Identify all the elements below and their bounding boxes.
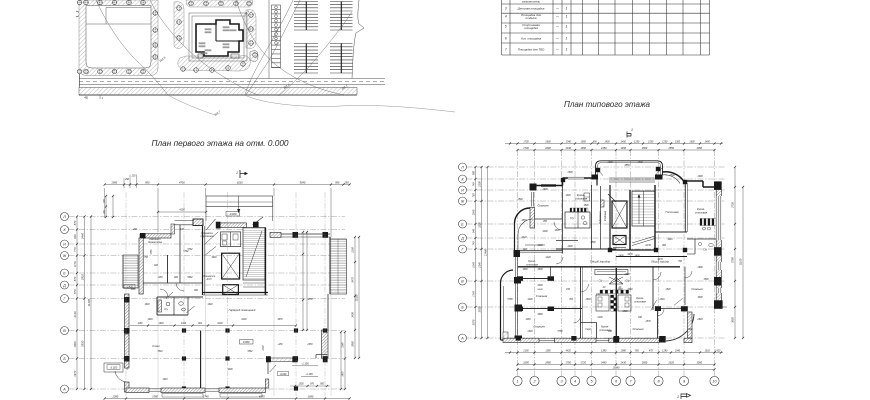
- svg-text:1610: 1610: [705, 350, 711, 352]
- left window 2: [515, 284, 517, 305]
- hall right wall: [329, 237, 331, 294]
- svg-text:1340: 1340: [566, 147, 572, 150]
- canopy side verticals: [205, 207, 207, 222]
- right plan grid bubbles numbers: [513, 376, 522, 385]
- left plan left dimension chains: [76, 217, 78, 390]
- parking comb upper-right: [330, 1, 353, 3]
- partition x657 lower: [657, 311, 659, 339]
- svg-text:4150: 4150: [179, 209, 185, 212]
- parking comb lower-left: [294, 43, 318, 45]
- left plan bottom dimension row: [105, 398, 350, 400]
- step wall to top bay: [596, 178, 598, 186]
- svg-text:1500: 1500: [637, 162, 643, 164]
- extension lines to plan: [157, 188, 159, 232]
- core top-left column: [216, 222, 221, 229]
- svg-text:2620: 2620: [668, 361, 675, 364]
- office top wall hatched: [140, 234, 171, 238]
- svg-text:АХЛ: АХЛ: [206, 278, 212, 281]
- tree bottom-left corner: [77, 69, 82, 74]
- left wall segment 2: [125, 334, 130, 368]
- svg-text:3290: 3290: [542, 231, 548, 233]
- section mark 1 top: [240, 170, 245, 178]
- boundary break mark: [76, 11, 83, 17]
- building entrance steps: [198, 54, 203, 58]
- left balcony hatch piece: [503, 332, 508, 341]
- svg-text:1600: 1600: [689, 141, 695, 143]
- porch step wall right: [316, 354, 327, 356]
- left bump-out wall: [500, 283, 502, 340]
- left plan extension verticals: [157, 188, 159, 396]
- parking west boundary line: [268, 0, 270, 79]
- svg-text:4Б: 4Б: [84, 96, 88, 100]
- playground inner area: [86, 6, 151, 69]
- svg-text:1380: 1380: [545, 350, 551, 352]
- partition y306 right: [661, 308, 681, 310]
- left plan grid bubbles: [61, 213, 69, 221]
- svg-text:1500: 1500: [607, 162, 613, 164]
- core bottom wall: [203, 292, 269, 294]
- stair landing below: [243, 282, 265, 284]
- top-right wall y181: [684, 180, 703, 182]
- trees on playground right band: [153, 11, 158, 16]
- contour line 1: [96, 0, 168, 95]
- core door swings: [205, 232, 219, 244]
- tree cluster below building: [178, 56, 251, 72]
- bottom wall column blocks: [516, 336, 521, 341]
- bottom wall window 2: [596, 338, 609, 340]
- wc fixtures upper: [581, 216, 584, 219]
- outdoor stair east hatched: [330, 239, 347, 294]
- site plan: [76, 0, 455, 117]
- kitchen counter upper right checker: [700, 219, 716, 226]
- level box -0.020: [226, 212, 240, 217]
- office step wall block: [193, 219, 203, 226]
- apartment entry doors mirrored: [609, 277, 623, 284]
- tree cluster strip right of building: [246, 10, 256, 49]
- road tick marks: [99, 95, 101, 100]
- svg-text:2190: 2190: [522, 350, 529, 352]
- top-right arc corner wall: [663, 172, 685, 182]
- parking stalls ladder column: [272, 5, 281, 68]
- svg-text:1800: 1800: [604, 141, 610, 143]
- svg-text:290: 290: [132, 229, 138, 231]
- building sidewalk outline: [189, 13, 247, 61]
- svg-text:1890: 1890: [590, 242, 596, 244]
- svg-text:1430: 1430: [621, 361, 627, 364]
- svg-text:1220: 1220: [545, 257, 551, 259]
- stair up arrow: [638, 196, 640, 224]
- hall columns: [124, 328, 128, 332]
- wc door swing 2: [187, 306, 195, 313]
- step wall x562-597: [562, 178, 564, 186]
- core stairs right plan: [632, 191, 655, 226]
- hall top boundary wall right of core: [270, 233, 281, 238]
- svg-text:Гард: Гард: [585, 328, 591, 331]
- svg-text:1: 1: [566, 48, 568, 52]
- svg-text:1250: 1250: [662, 141, 668, 143]
- svg-text:1: 1: [516, 380, 518, 384]
- trees on playground top band: [84, 0, 89, 5]
- svg-text:2450: 2450: [600, 147, 607, 150]
- wash fixtures: [222, 234, 227, 240]
- svg-text:3470: 3470: [352, 277, 355, 283]
- svg-text:заполнитель: заполнитель: [521, 0, 541, 4]
- right plan top dimension rows: [505, 143, 723, 145]
- corridor top wall right part: [616, 256, 687, 258]
- svg-text:Гостиная: Гостиная: [665, 210, 678, 214]
- svg-text:1970: 1970: [343, 371, 345, 377]
- corridor top wall left part: [556, 248, 616, 250]
- svg-text:1450: 1450: [621, 147, 627, 150]
- svg-text:1650: 1650: [581, 141, 587, 143]
- parking east torn edge: [352, 0, 364, 78]
- left small vertical dims top: [105, 196, 107, 217]
- svg-text:3480: 3480: [601, 361, 607, 364]
- top bay wall block left: [592, 175, 599, 180]
- core top wall hatched band: [219, 223, 246, 228]
- svg-text:6: 6: [505, 37, 507, 41]
- door arcs below wc: [160, 289, 168, 297]
- left wall upper segment: [514, 223, 516, 250]
- svg-text:5780: 5780: [557, 331, 563, 333]
- svg-text:7: 7: [505, 48, 507, 52]
- bottom exterior wall hatched segment 1: [503, 338, 539, 342]
- svg-text:1: 1: [566, 15, 568, 19]
- contour through parking 1: [246, 0, 300, 95]
- svg-text:2190: 2190: [352, 247, 355, 254]
- top bay wall block right: [655, 175, 663, 180]
- table vertical grid lines: [501, 0, 503, 55]
- right wall pilasters: [714, 181, 722, 190]
- right lower corner bottom hatch: [684, 338, 692, 342]
- svg-text:12120: 12120: [356, 294, 359, 301]
- balcony corner chamfer left: [596, 168, 603, 176]
- office left wall hatched: [139, 238, 143, 294]
- svg-text:1850: 1850: [307, 299, 313, 301]
- svg-text:1150: 1150: [138, 323, 144, 325]
- wash rooms in core: [221, 232, 241, 247]
- partition y240.5: [556, 240, 578, 242]
- far right dimension chain left plan: [354, 237, 356, 358]
- road edge line lower: [79, 84, 385, 86]
- left pilaster 1: [514, 250, 521, 257]
- parking comb upper-left: [294, 1, 318, 3]
- left wall bottom stub: [125, 382, 130, 392]
- partition y278.5 left: [517, 278, 554, 280]
- hall partition vertical center: [200, 331, 202, 393]
- top balcony outline: [596, 161, 663, 175]
- road hatched strip: [79, 88, 357, 95]
- svg-text:3030: 3030: [554, 230, 560, 232]
- balcony corner chamfer right: [655, 168, 662, 176]
- svg-text:5562: 5562: [247, 351, 253, 353]
- hall right wall lower: [327, 294, 329, 330]
- top-right step down: [702, 181, 704, 187]
- upper-left room top wall: [535, 185, 563, 187]
- office vertical stub wall x171: [171, 224, 175, 234]
- partition x685 upper: [684, 183, 686, 232]
- porch steps below bottom wall 1: [162, 394, 203, 398]
- kladovaya pier hatched: [601, 200, 605, 207]
- svg-text:800: 800: [473, 170, 476, 175]
- right lower corner wall hatched: [688, 312, 693, 338]
- site amenities table: [502, 0, 710, 55]
- contour line 4: [245, 0, 293, 95]
- left plan top dimension row: [105, 184, 350, 186]
- wc right fixtures: [709, 243, 713, 246]
- right plan left dimension chains: [475, 167, 477, 338]
- wc door swing 1: [166, 292, 173, 299]
- upper-left bay arc wall: [515, 208, 531, 223]
- svg-text:1780: 1780: [566, 361, 572, 364]
- bottom wall segment 3: [219, 388, 265, 393]
- left bump-out bay arc top: [500, 270, 513, 283]
- kitchen checker band: [600, 290, 629, 294]
- tree east of building: [250, 51, 258, 62]
- svg-text:740: 740: [473, 182, 476, 187]
- canopy center arrow: [238, 196, 240, 213]
- svg-text:2290: 2290: [596, 317, 603, 319]
- stair center rail: [643, 191, 645, 226]
- upper-left corner column: [530, 184, 537, 191]
- stair break diagonal: [632, 236, 655, 243]
- svg-text:1960: 1960: [687, 329, 693, 331]
- svg-text:4: 4: [574, 380, 576, 384]
- svg-text:1540: 1540: [473, 209, 476, 215]
- left wall column B: [124, 297, 130, 303]
- svg-text:3050: 3050: [697, 147, 703, 150]
- left wall column at B row: [124, 328, 130, 334]
- office partition x180: [179, 225, 181, 283]
- svg-text:2130: 2130: [263, 345, 265, 352]
- svg-text:1570: 1570: [645, 321, 651, 323]
- office room partition x167: [167, 255, 169, 283]
- svg-text:И: И: [461, 188, 464, 192]
- left plan horizontal grid dash-dot lines: [69, 216, 346, 218]
- wc hatched pier: [158, 300, 162, 312]
- partition x562 vertical: [562, 185, 564, 254]
- bottom right small dim row: [290, 385, 330, 387]
- core left wall: [609, 185, 611, 250]
- parking comb lower-right: [330, 43, 353, 45]
- building interior partition horizontal: [216, 40, 239, 42]
- porch door swing: [270, 365, 276, 372]
- svg-text:2690: 2690: [544, 141, 551, 143]
- entrance canopy slab above core: [206, 196, 273, 207]
- svg-text:1: 1: [236, 171, 238, 175]
- outdoor platform bottom-left: [104, 363, 123, 372]
- svg-text:1890: 1890: [583, 205, 589, 207]
- table horizontal grid lines: [502, 3, 710, 5]
- svg-text:6230: 6230: [217, 323, 223, 325]
- svg-text:Спальня: Спальня: [533, 325, 545, 329]
- svg-text:2020: 2020: [520, 237, 527, 239]
- svg-text:1: 1: [566, 7, 568, 11]
- gard closet walls: [581, 322, 597, 324]
- outdoor stair left: [123, 255, 138, 288]
- section mark bottom of right plan: [681, 394, 691, 400]
- svg-text:1750: 1750: [151, 249, 153, 255]
- core left wall: [202, 226, 204, 295]
- svg-text:-0.030: -0.030: [280, 374, 287, 376]
- outdoor stair label: [124, 285, 135, 289]
- svg-text:230: 230: [131, 176, 137, 178]
- svg-text:2730: 2730: [732, 202, 735, 209]
- left pilaster 4: [515, 336, 523, 343]
- road center dashed line: [79, 81, 385, 83]
- svg-text:отдыха: отдыха: [526, 16, 537, 20]
- right wall lower hatched piece: [322, 330, 329, 358]
- parking area: [246, 0, 364, 96]
- svg-text:3650: 3650: [732, 317, 735, 323]
- hall top column mid: [293, 232, 299, 238]
- left plan vertical column grid lines: [125, 192, 127, 396]
- parking ladder symbols: [275, 6, 278, 9]
- right plan horizontal grid lines: [467, 166, 727, 168]
- svg-text:План первого этажа на отм. 0.0: План первого этажа на отм. 0.000: [152, 139, 290, 148]
- office top-left column: [140, 233, 146, 239]
- svg-text:2500: 2500: [668, 175, 675, 177]
- svg-text:1150: 1150: [131, 289, 137, 291]
- bottom wall segment 2: [161, 388, 205, 393]
- svg-text:1740: 1740: [473, 291, 476, 297]
- svg-text:столовая: столовая: [634, 301, 646, 304]
- svg-text:1900: 1900: [697, 267, 703, 269]
- upper-left wall piece hatched: [530, 208, 535, 229]
- svg-text:1500: 1500: [703, 279, 709, 281]
- gostinaya bottom wall: [655, 231, 687, 233]
- core stair walls: [629, 190, 631, 250]
- svg-text:1980: 1980: [621, 350, 627, 352]
- left pilaster 3: [515, 305, 523, 312]
- top bay window band: [609, 177, 655, 179]
- svg-text:1: 1: [566, 25, 568, 29]
- svg-text:2070: 2070: [473, 319, 476, 326]
- svg-text:2550: 2550: [668, 147, 675, 150]
- stairs diagonal arrow: [246, 231, 262, 277]
- level box -0.030 bottom: [278, 372, 289, 376]
- platform level label: [107, 365, 120, 370]
- typical floor plan: [459, 128, 745, 399]
- bottom-right door arc: [666, 314, 694, 341]
- elevator shaft 2: [223, 285, 239, 295]
- svg-text:1700: 1700: [523, 141, 529, 143]
- svg-text:5762: 5762: [183, 251, 189, 253]
- building footprint walls: [196, 20, 243, 56]
- bottom wall window 1: [539, 338, 555, 340]
- columns right plan: [561, 178, 565, 182]
- wc block walls: [157, 296, 203, 298]
- svg-text:6230: 6230: [241, 319, 247, 321]
- svg-text:+150: +150: [277, 344, 283, 346]
- section mark top of right plan: [627, 132, 631, 138]
- bottom window 1: [149, 388, 161, 390]
- svg-text:И: И: [63, 242, 66, 246]
- elevator shaft A: [612, 201, 627, 228]
- svg-text:площадка: площадка: [524, 26, 538, 30]
- svg-text:940: 940: [473, 228, 476, 233]
- partition y250-305 right rooms: [684, 267, 686, 305]
- contour line 2: [150, 0, 258, 95]
- hall interior dimension line: [130, 325, 296, 327]
- svg-text:1230: 1230: [537, 245, 543, 247]
- shaft top chamfer: [608, 194, 616, 202]
- playground inner divider line: [86, 23, 151, 25]
- right wall lower end ledge: [714, 306, 723, 308]
- level label -1.100 a: [292, 365, 318, 367]
- building apartment number labels: [205, 28, 212, 30]
- porch columns: [266, 356, 271, 362]
- bottom wall end block: [659, 336, 666, 343]
- svg-text:1150: 1150: [157, 277, 163, 279]
- contour line 3: [236, 0, 344, 95]
- shaft B lower compartment: [613, 247, 626, 249]
- level label 0.000 box: [240, 340, 254, 345]
- svg-text:2350: 2350: [306, 344, 313, 346]
- svg-text:740: 740: [473, 241, 476, 246]
- stairs block left plan: [243, 228, 265, 281]
- partition y308.5 left: [517, 308, 582, 310]
- column at wall 6 bottom: [613, 337, 619, 343]
- bottom-left corner: [501, 339, 517, 341]
- porch wall hatched band: [271, 358, 293, 362]
- core top-right column: [253, 222, 259, 229]
- svg-text:1900: 1900: [542, 189, 548, 191]
- corridor niche shelf: [595, 270, 628, 275]
- right lower dim chain: [344, 332, 346, 389]
- porch left corner wall: [267, 362, 269, 374]
- window in office top y220-225: [175, 220, 194, 222]
- window in step wall y178: [568, 177, 584, 180]
- contour tail 2: [168, 95, 215, 115]
- svg-text:1000: 1000: [522, 269, 528, 271]
- contour through parking 2: [278, 12, 352, 96]
- kitchen fixture stack upper: [584, 193, 590, 201]
- wc cluster upper: [565, 212, 590, 228]
- svg-text:Абонентск.: Абонентск.: [201, 275, 216, 278]
- svg-text:Ж: Ж: [460, 199, 465, 203]
- road strip bottom line: [79, 95, 357, 97]
- svg-text:5: 5: [505, 25, 507, 29]
- svg-text:Площадка для ТБО: Площадка для ТБО: [518, 48, 545, 52]
- kitchen fixtures circles: [703, 227, 706, 230]
- svg-text:1720: 1720: [581, 361, 587, 364]
- bottom window 2: [205, 388, 219, 390]
- right side dimension chains of left plan: [302, 232, 304, 330]
- svg-text:3050: 3050: [697, 361, 703, 364]
- right exterior wall hatched: [716, 183, 721, 307]
- first floor plan: [61, 170, 361, 400]
- playground inner tick: [105, 8, 107, 25]
- svg-text:5780: 5780: [732, 257, 735, 263]
- svg-text:3400: 3400: [352, 312, 355, 318]
- svg-text:Спальня: Спальня: [536, 294, 548, 298]
- right plan right dimension chains: [734, 167, 736, 338]
- svg-text:1: 1: [677, 395, 679, 399]
- svg-text:План типового этажа: План типового этажа: [564, 100, 651, 109]
- svg-text:1700: 1700: [523, 147, 529, 150]
- kitchen fixture boxes left: [596, 295, 609, 311]
- svg-text:4: 4: [505, 15, 507, 19]
- hall top column right: [323, 232, 329, 238]
- building interior partition vertical: [215, 24, 217, 41]
- room divider wall y251 left: [518, 250, 563, 252]
- partition x580 vertical lower: [580, 267, 582, 338]
- svg-text:1690: 1690: [523, 361, 529, 364]
- dim bracket 4150: [158, 211, 206, 213]
- bottom right vertical wall piece: [265, 379, 268, 388]
- svg-text:2880: 2880: [641, 361, 648, 364]
